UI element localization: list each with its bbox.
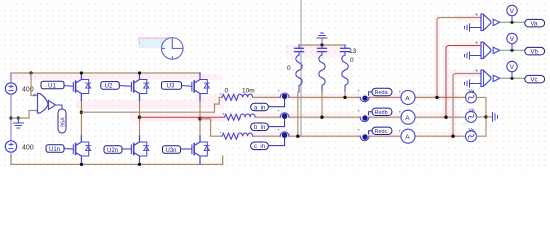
junction: riser B / phase B <box>444 116 447 119</box>
label U2 <box>101 82 120 90</box>
svg-text:b_in: b_in <box>254 125 265 131</box>
svg-text:Va: Va <box>531 22 539 28</box>
wire: midpoint to ground <box>11 117 18 119</box>
junction: top rail leg2 <box>138 71 141 74</box>
label Redb <box>372 108 392 116</box>
inductor La <box>238 94 253 97</box>
label U2n <box>104 146 122 154</box>
wire: U1 to gate <box>64 85 73 88</box>
svg-text:U3n: U3n <box>166 148 177 154</box>
wire: Lb to sensor B <box>255 116 466 118</box>
wire: ground tap to comparator - input <box>18 111 37 119</box>
resistor Rc <box>222 133 238 139</box>
ground (AC neutral) <box>493 112 498 121</box>
wire: La to sensor A <box>253 96 466 98</box>
wire: top rail to comparator + input <box>31 73 38 96</box>
svg-text:0: 0 <box>287 65 291 72</box>
svg-text:+: + <box>278 89 281 94</box>
label U3 <box>162 82 182 90</box>
wire: branch3 down to phase A <box>344 92 346 97</box>
wire: U2 to gate <box>119 85 131 88</box>
clock element <box>162 38 184 60</box>
svg-text:.: . <box>462 100 463 105</box>
selection highlight (cyan box) <box>139 38 172 48</box>
voltmeter V1 <box>507 5 517 15</box>
svg-text:400: 400 <box>22 145 34 152</box>
svg-text:+: + <box>358 127 361 132</box>
voltage sensor VSc <box>475 69 491 87</box>
wire: phase A sense riser <box>437 18 481 98</box>
junction: VSa output node <box>510 21 513 24</box>
svg-text:.: . <box>416 101 417 106</box>
capacitor Cf3 <box>341 45 350 55</box>
junction: bottom rail leg1 <box>80 163 83 166</box>
svg-text:Redc: Redc <box>375 129 388 135</box>
junction: riser A / phase A <box>435 96 438 99</box>
svg-text:+: + <box>475 69 478 75</box>
label Reda <box>372 88 392 96</box>
current sensor ISa <box>280 93 289 99</box>
svg-text:.: . <box>416 139 417 144</box>
wire: phase C sense riser <box>453 74 481 137</box>
junction: leg1 output tap <box>80 111 83 114</box>
AC source Vsc <box>466 131 477 142</box>
ground (VSb input) <box>465 52 482 59</box>
wire: branch2 down to phase B <box>321 92 323 117</box>
svg-text:Va: Va <box>469 89 475 95</box>
label Va <box>525 19 545 27</box>
voltmeter V3 <box>507 61 517 71</box>
wire: Vsc to neutral bus <box>477 117 487 136</box>
svg-text:U2: U2 <box>105 83 113 90</box>
svg-text:c_in: c_in <box>254 144 265 150</box>
buffer gate <box>49 101 56 110</box>
junction: VSc output node <box>510 77 513 80</box>
ammeter A2 <box>401 110 415 124</box>
junction: branch1 / phase C <box>296 135 299 138</box>
ground (VSa input) <box>465 24 482 31</box>
svg-text:+: + <box>33 93 37 99</box>
svg-text:+: + <box>358 108 361 113</box>
junction: leg2 output tap <box>138 116 141 119</box>
resistor Rb <box>225 114 241 120</box>
wire: Vsa to neutral bus <box>477 97 487 117</box>
vertical divider line <box>300 0 302 136</box>
label U3n <box>163 146 181 154</box>
DC source V2 (bottom 400V) <box>5 118 16 156</box>
wire: U2n to gate <box>122 148 131 150</box>
svg-text:96A: 96A <box>61 117 67 127</box>
wire: U3n to gate <box>181 148 192 150</box>
buffer (VSb) <box>493 47 500 53</box>
wire: VSc output <box>500 77 525 79</box>
inductor Lf2 <box>319 55 325 92</box>
svg-text:.: . <box>462 119 463 124</box>
svg-text:.: . <box>293 86 294 91</box>
wire: c_in to ISc <box>268 137 284 145</box>
svg-text:+: + <box>475 13 478 19</box>
IGBT Q5 (bottom leg2) <box>131 136 149 164</box>
svg-text:+: + <box>222 111 225 116</box>
current sensor ISc <box>280 132 289 138</box>
svg-text:Vb: Vb <box>531 50 539 56</box>
wire: phase B from leg2 (red) <box>140 116 225 118</box>
IGBT Q2 (top leg2) <box>131 73 149 101</box>
wire: phase A from leg1 <box>81 97 222 112</box>
wire: Redb label stub <box>369 112 372 115</box>
current sensor Redb <box>360 115 369 121</box>
buffer (VSa) <box>493 19 500 25</box>
svg-text:a_in: a_in <box>254 105 265 111</box>
junction: riser C / phase C <box>451 135 454 138</box>
inductor Lf1 <box>296 55 302 92</box>
svg-text:.: . <box>462 138 463 143</box>
svg-text:Redb: Redb <box>375 110 388 116</box>
svg-text:0: 0 <box>225 88 229 95</box>
AC source Vsb <box>466 111 477 122</box>
svg-text:+: + <box>399 128 402 133</box>
wire: VSb output <box>500 49 525 51</box>
junction: DC midpoint <box>9 116 12 119</box>
svg-text:+: + <box>358 89 361 94</box>
inductor Lf3 <box>342 55 348 92</box>
wire: leg3 midpoint vertical <box>199 95 201 141</box>
buffer (VSc) <box>493 75 500 81</box>
svg-text:U1n: U1n <box>49 147 60 153</box>
current sensor Redc <box>360 134 369 140</box>
svg-text:+: + <box>220 130 223 135</box>
voltage sensor VSa <box>475 13 491 31</box>
svg-text:+: + <box>278 127 281 132</box>
label a_in <box>251 103 269 111</box>
svg-text:U1: U1 <box>48 82 56 89</box>
wire: Lc to sensor C <box>253 135 466 137</box>
svg-text:.: . <box>416 120 417 125</box>
junction: ground tap <box>17 116 20 119</box>
IGBT Q4 (bottom leg1) <box>73 136 91 164</box>
current sensor Reda <box>360 96 369 102</box>
svg-text:+: + <box>399 90 402 95</box>
junction: bottom rail leg2 <box>138 163 141 166</box>
wire: DC bus bottom rail <box>11 156 223 164</box>
junction: filter bus / ground <box>320 43 323 46</box>
DC source V1 (top 400V) <box>5 73 16 118</box>
svg-text:U3: U3 <box>167 83 175 90</box>
ammeter A3 <box>401 129 415 143</box>
wire: b_in to ISb <box>268 118 284 126</box>
comparator U9 <box>33 93 48 113</box>
svg-text:0: 0 <box>350 57 354 64</box>
junction: leg3 output tap <box>198 117 201 120</box>
wire: neutral to ground <box>486 116 493 118</box>
gating block 96A <box>58 109 67 133</box>
IGBT Q1 (top leg1) <box>73 73 91 101</box>
junction: top rail comparator tap <box>29 71 32 74</box>
inductor Lc <box>238 133 253 136</box>
wire: a_in to ISa <box>268 99 284 107</box>
label U1n <box>46 145 64 153</box>
svg-text:A: A <box>405 115 410 122</box>
label Redc <box>372 127 392 135</box>
wire: phase C from leg3 <box>200 119 222 136</box>
wire: Vsb to neutral bus <box>477 116 487 118</box>
ammeter A1 <box>401 90 415 104</box>
pink glow bands (decorative) <box>8 14 481 138</box>
junction: neutral bus <box>484 115 487 118</box>
svg-text:Reda: Reda <box>375 90 389 96</box>
svg-text:U2n: U2n <box>107 148 118 154</box>
svg-text:Vc: Vc <box>531 78 538 84</box>
wire: DC bus top rail <box>11 73 200 79</box>
wire: leg2 midpoint vertical <box>139 95 141 141</box>
wire: U1n to gate <box>64 148 73 151</box>
svg-text:+: + <box>399 109 402 114</box>
wire: U3 to gate <box>182 85 192 88</box>
wire: voltmeter V2 stub <box>511 44 513 51</box>
inductor Lb <box>240 114 255 117</box>
svg-text:A: A <box>405 95 410 102</box>
voltmeter V2 <box>507 33 517 43</box>
svg-text:13: 13 <box>349 48 357 55</box>
wire: phase B sense riser (red) <box>446 46 481 118</box>
label Vb <box>525 47 545 55</box>
capacitor Cf2 <box>318 45 327 55</box>
label c_in <box>251 142 269 150</box>
wire: branch1 down to phase C <box>297 92 299 136</box>
wire: Redc label stub <box>369 131 372 134</box>
IGBT Q6 (bottom leg3) <box>192 136 210 164</box>
junction: top rail leg1 <box>80 71 83 74</box>
ground (filter top) <box>317 33 327 45</box>
voltage sensor VSb <box>475 41 491 59</box>
junction: VSb output node <box>510 49 513 52</box>
AC source Vsa <box>466 92 477 103</box>
svg-text:Vc: Vc <box>469 128 475 134</box>
svg-text:+: + <box>220 92 223 97</box>
junction: branch2 / phase B <box>320 116 323 119</box>
wire: Reda label stub <box>369 92 372 95</box>
ground (DC link midpoint) <box>13 118 23 128</box>
svg-text:Vb: Vb <box>469 109 475 115</box>
wire: VSa output <box>500 21 525 23</box>
current sensor ISb <box>280 113 289 119</box>
wire: filter top bus <box>299 44 345 46</box>
junction: branch3 / phase A <box>343 96 346 99</box>
resistor Ra <box>222 94 238 100</box>
label b_in <box>251 123 269 131</box>
svg-text:A: A <box>405 134 410 141</box>
svg-text:+: + <box>475 41 478 47</box>
capacitor Cf1 <box>295 45 304 55</box>
label Vc <box>525 75 545 83</box>
wire: voltmeter V3 stub <box>511 72 513 79</box>
label U1 <box>41 81 64 89</box>
svg-text:10m: 10m <box>242 88 255 95</box>
wire: leg1 midpoint vertical <box>80 95 82 141</box>
wire: buffer to gating block <box>56 105 63 109</box>
IGBT Q3 (top leg3) <box>192 73 210 101</box>
svg-text:+: + <box>278 108 281 113</box>
ground (VSc input) <box>465 80 482 87</box>
pin marks (decorative) <box>220 86 463 144</box>
wire: voltmeter V1 stub <box>511 16 513 23</box>
